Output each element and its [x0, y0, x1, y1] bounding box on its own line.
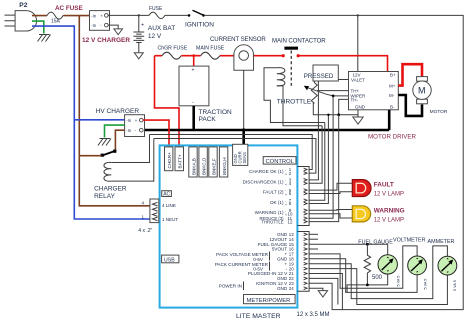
- wire throttle bottom to ground node: [313, 103, 358, 117]
- current sensor: [210, 36, 266, 70]
- wire pin22 to gnd nest: [309, 278, 338, 304]
- bracket bars labels: [244, 252, 270, 291]
- wire red main power line: [155, 54, 388, 74]
- wire node to pin8: [309, 114, 329, 204]
- svg-text:BNKE,F: BNKE,F: [211, 158, 216, 175]
- meter FUEL GAUGE: [358, 239, 400, 286]
- svg-text:CHARGER: CHARGER: [94, 186, 127, 193]
- svg-text:5 VA 5: 5 VA 5: [453, 280, 457, 291]
- svg-text:5 VA 5: 5 VA 5: [397, 276, 401, 287]
- svg-text:+: +: [141, 23, 144, 29]
- pin BNKC,D: [199, 147, 207, 177]
- svg-text:BNKC,D: BNKC,D: [201, 157, 206, 175]
- wire pin15 to fuel gauge top: [309, 243, 388, 255]
- pin numbers and labels 13-24: [248, 232, 288, 291]
- pin plus minus ticks control: [285, 168, 287, 217]
- coil contactor coil: [264, 68, 325, 126]
- svg-text:12 V: 12 V: [148, 33, 162, 40]
- svg-text:12 V LAMP: 12 V LAMP: [374, 217, 404, 223]
- wire thick black B- to bus: [388, 110, 391, 130]
- contactor MAIN CONTACTOR: [272, 38, 326, 88]
- svg-text:-: -: [285, 199, 286, 203]
- wire pin19 to ammeter plus: [309, 246, 447, 299]
- wire green HV charger to chassis ground: [105, 125, 125, 137]
- wire red CHGR fuse branch junction at top pins: [168, 147, 170, 148]
- svg-text:12 x 3.5 MM: 12 x 3.5 MM: [297, 312, 330, 318]
- svg-text:5 VA 5: 5 VA 5: [424, 279, 428, 290]
- labels meter section left: [215, 252, 269, 289]
- svg-text:4 LINE: 4 LINE: [162, 203, 176, 208]
- svg-text:4: 4: [142, 201, 145, 206]
- wire pressed to pin3: [309, 81, 318, 180]
- svg-text:P2: P2: [19, 2, 27, 9]
- battery AUX BAT 12V: [133, 15, 175, 52]
- svg-text:AMMETER: AMMETER: [428, 239, 455, 245]
- motor driver U2: [349, 72, 417, 141]
- wire TH- to node: [339, 99, 349, 114]
- svg-text:15A: 15A: [51, 19, 61, 25]
- svg-text:AC: AC: [163, 192, 170, 198]
- battery TRACTION PACK: [179, 66, 232, 123]
- svg-text:MAIN CONTACTOR: MAIN CONTACTOR: [272, 38, 326, 45]
- svg-text:RELAY: RELAY: [94, 193, 115, 200]
- wire red charger branch to BATT+: [155, 56, 180, 147]
- svg-text:IGNITION: IGNITION: [185, 22, 214, 29]
- svg-text:ChGR FUSE: ChGR FUSE: [158, 46, 188, 52]
- wire pin10 to warning lamp: [309, 214, 352, 218]
- wire thick red M+ to motor: [398, 64, 422, 85]
- svg-text:GND: GND: [355, 105, 366, 110]
- box USB: [162, 255, 179, 263]
- svg-text:+: +: [285, 193, 287, 197]
- pin GND CURR SENS: [233, 144, 248, 165]
- svg-text:THROTTLE: THROTTLE: [261, 220, 283, 225]
- wire green plug to chassis ground: [32, 21, 44, 33]
- svg-text:CURRENT SENSOR: CURRENT SENSOR: [210, 36, 266, 43]
- pin numbers 1-12: [288, 167, 293, 224]
- pin BNKG,H: [219, 147, 227, 177]
- wire pin9 to warning lamp: [309, 209, 352, 212]
- wire pin17 to voltmeter plus: [309, 246, 417, 288]
- fuse FUSE top: [149, 6, 166, 19]
- svg-text:-: -: [285, 168, 286, 172]
- svg-text:PACK: PACK: [199, 116, 217, 123]
- pin labels control section: [243, 169, 284, 224]
- svg-text:CHGR+: CHGR+: [167, 152, 172, 169]
- svg-text:-In: -In: [126, 118, 132, 123]
- wire pin20 to ammeter minus: [309, 269, 447, 305]
- svg-text:MOTOR DRIVER: MOTOR DRIVER: [368, 134, 417, 141]
- svg-text:+: +: [285, 183, 287, 187]
- svg-text:M+: M+: [389, 84, 396, 89]
- svg-text:FUSE: FUSE: [149, 6, 163, 12]
- svg-text:CHARGE OK (1): CHARGE OK (1): [249, 169, 284, 174]
- svg-text:1 NEUT: 1 NEUT: [162, 217, 179, 222]
- svg-text:FAULT (2): FAULT (2): [263, 190, 284, 195]
- plug P2: [5, 2, 37, 31]
- svg-text:+: +: [192, 68, 195, 74]
- svg-text:500: 500: [372, 275, 383, 281]
- fuse CHGR FUSE: [158, 46, 188, 60]
- box CONTROL: [263, 157, 296, 165]
- svg-text:12: 12: [288, 219, 293, 224]
- svg-text:SENS: SENS: [242, 152, 247, 164]
- connector AC 4x2: [138, 199, 178, 234]
- wire coil bottom to pin4: [309, 126, 322, 184]
- wire brown plug to fuse to 12V charger: [32, 16, 90, 156]
- wire coil top to pin7: [309, 123, 325, 201]
- svg-text:-: -: [285, 209, 286, 213]
- svg-text:TRACTION: TRACTION: [199, 109, 233, 116]
- wire thick black M- to motor: [398, 95, 422, 116]
- resistor 500 fuel sender: [364, 244, 382, 285]
- wire fuel gauge bottom: [347, 274, 388, 292]
- ground open triangle below motor driver: [353, 110, 363, 124]
- lamp WARNING 12V: [352, 206, 404, 224]
- wire pin21 to ignition loop: [309, 274, 342, 310]
- box PRESSED switch: [304, 65, 339, 81]
- connector bracket pins 1-12: [297, 167, 309, 226]
- wire pin16 stub: [309, 248, 318, 250]
- svg-text:-In: -In: [91, 23, 97, 28]
- pin chevrons 13-24: [304, 233, 307, 290]
- ground open triangle below aux bat: [134, 53, 143, 59]
- pin CHGR+: [165, 147, 173, 171]
- svg-text:AUX BAT: AUX BAT: [148, 25, 175, 32]
- svg-text:B+: B+: [390, 73, 396, 78]
- wire brown HV charger In to relay contact: [115, 130, 124, 151]
- svg-text:VALET: VALET: [351, 78, 365, 83]
- svg-text:+: +: [285, 203, 287, 207]
- wire charger +O to aux bat and fuse: [108, 14, 188, 16]
- pin BATT+: [175, 147, 184, 171]
- svg-text:THROTTLE: THROTTLE: [277, 99, 312, 106]
- pin BNKA,B: [189, 147, 197, 177]
- svg-text:BATT+: BATT+: [178, 154, 183, 168]
- wire 12V riser to motor driver: [357, 15, 359, 71]
- svg-text:METER/POWER: METER/POWER: [247, 298, 291, 304]
- connector bracket pins 13-24: [297, 232, 309, 292]
- ground chassis at plug: [38, 35, 51, 42]
- svg-text:LITE MASTER: LITE MASTER: [236, 313, 281, 320]
- svg-text:BNKG,H: BNKG,H: [222, 157, 227, 175]
- wire pin6 to fault lamp: [309, 192, 352, 194]
- svg-text:BNKA,B: BNKA,B: [191, 158, 196, 175]
- wire pin18 to voltmeter minus: [309, 259, 417, 293]
- wire pin5 to fault lamp: [309, 183, 352, 190]
- svg-text:WARNING: WARNING: [374, 207, 405, 214]
- svg-text:TH-: TH-: [351, 97, 359, 102]
- wire ignition to right side loop: [205, 14, 463, 309]
- svg-text:OK (1): OK (1): [270, 200, 284, 205]
- wire pin24 to ground: [309, 288, 323, 290]
- svg-text:VOLTMETER: VOLTMETER: [393, 238, 426, 244]
- wire wrap band to pin2: [154, 139, 316, 174]
- svg-text:M: M: [418, 86, 426, 96]
- box LITE MASTER outline: [160, 145, 330, 320]
- wire throttle node to pin12: [309, 115, 339, 222]
- lamp FAULT 12V: [352, 180, 404, 198]
- meter AMMETER: [428, 239, 458, 291]
- motor M: [413, 77, 448, 115]
- svg-text:24: 24: [289, 286, 294, 291]
- svg-text:12 V LAMP: 12 V LAMP: [374, 192, 404, 198]
- svg-text:-In: -In: [91, 13, 97, 18]
- svg-text:0-5V: 0-5V: [253, 267, 264, 272]
- pin BNKE,F: [209, 147, 217, 177]
- svg-text:MOTOR: MOTOR: [430, 109, 448, 115]
- wire red HV charger +O to CHGR+: [143, 120, 169, 147]
- wire red to traction pack plus: [193, 56, 195, 66]
- wire throttle top to TH+: [314, 81, 348, 91]
- svg-text:+: +: [285, 213, 287, 217]
- svg-text:PRESSED: PRESSED: [304, 73, 334, 80]
- svg-text:-In: -In: [126, 128, 132, 133]
- svg-text:FUEL GAUGE: FUEL GAUGE: [358, 239, 393, 245]
- wire thick black traction minus to bus: [192, 106, 195, 130]
- svg-text:+: +: [285, 172, 287, 176]
- svg-text:GND: GND: [277, 286, 288, 291]
- svg-text:B-: B-: [390, 105, 395, 110]
- potentiometer THROTTLE: [277, 83, 327, 106]
- svg-text:DISCHARGEOK (1): DISCHARGEOK (1): [243, 180, 284, 185]
- 12V charger U1: [82, 11, 130, 44]
- wire pin14 stub: [309, 238, 318, 240]
- svg-text:1: 1: [142, 215, 145, 220]
- svg-text:4 x .2": 4 x .2": [138, 228, 152, 234]
- box AC: [162, 191, 172, 198]
- svg-text:MAIN FUSE: MAIN FUSE: [196, 46, 225, 52]
- wire blue plug to HV charger and AC connector: [32, 26, 150, 219]
- switch IGNITION: [185, 10, 214, 28]
- switch charger relay contact: [101, 150, 117, 157]
- wire VALET to pressed box: [338, 79, 348, 81]
- wire wiper node to pin11: [309, 96, 333, 218]
- pin chevrons 1-12: [304, 168, 307, 223]
- svg-text:12 V CHARGER: 12 V CHARGER: [82, 37, 130, 44]
- wire throttle wiper to motor driver WIPER: [327, 94, 349, 97]
- wire pin13 stub: [309, 233, 318, 235]
- svg-text:WARNING (1): WARNING (1): [255, 210, 284, 215]
- svg-text:USB: USB: [164, 257, 175, 263]
- svg-text:AC FUSE: AC FUSE: [55, 5, 83, 12]
- svg-text:POWER IN: POWER IN: [219, 284, 242, 289]
- svg-text:HV CHARGER: HV CHARGER: [96, 108, 140, 115]
- wire wrap band to pin1: [150, 135, 313, 170]
- svg-text:M-: M-: [389, 93, 395, 98]
- box METER/POWER: [244, 295, 296, 304]
- wire thick black negative bus: [145, 129, 390, 132]
- svg-text:-: -: [285, 178, 286, 182]
- svg-text:-: -: [285, 189, 286, 193]
- wire charger -O to ground: [108, 25, 118, 29]
- wire current sensor output: [242, 70, 245, 144]
- HV charger U3: [96, 108, 145, 137]
- fuse AC FUSE 15A: [47, 5, 83, 25]
- svg-text:CONTROL: CONTROL: [266, 159, 295, 165]
- ground chassis below HV charger: [98, 139, 111, 146]
- meter VOLTMETER: [393, 238, 428, 290]
- ground open triangle below 12V charger: [114, 29, 123, 35]
- fuse MAIN FUSE: [196, 46, 225, 60]
- wire brown relay to AC connector: [79, 156, 150, 206]
- coil charger relay: [94, 135, 154, 201]
- ground open triangle meter section: [318, 291, 327, 297]
- svg-text:FAULT: FAULT: [374, 182, 394, 189]
